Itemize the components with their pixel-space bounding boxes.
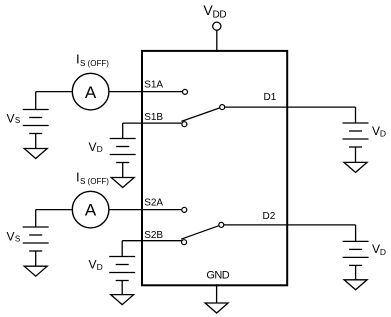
wire VD1 top lead <box>122 123 124 138</box>
svg-text:S1A: S1A <box>144 80 163 91</box>
battery VD (D1) <box>343 123 369 147</box>
svg-text:S2A: S2A <box>144 198 163 209</box>
label Is(OFF) 2 <box>76 169 109 186</box>
svg-text:D: D <box>380 129 386 139</box>
svg-text:D1: D1 <box>264 92 277 103</box>
wire VD(D1) bottom lead <box>355 147 357 162</box>
svg-text:A: A <box>85 201 97 220</box>
wire GND stub <box>216 284 218 303</box>
label VD (D1) <box>372 124 386 139</box>
svg-text:GND: GND <box>206 270 229 282</box>
ground (VS1) <box>24 149 47 159</box>
ground (VS2) <box>24 266 47 276</box>
wire VS1 top lead <box>35 92 37 110</box>
label VS 1 <box>7 112 21 126</box>
svg-text:D: D <box>97 262 103 272</box>
VDD label <box>203 2 226 20</box>
wire VS2 bottom lead <box>35 251 37 266</box>
pole contact SW1 <box>220 105 225 110</box>
wire VD2 top lead <box>121 241 123 257</box>
contact S1B <box>182 122 187 127</box>
svg-text:A: A <box>85 83 97 102</box>
wire VD1 bottom lead <box>122 163 124 178</box>
svg-text:V: V <box>372 242 380 256</box>
svg-text:V: V <box>7 230 15 244</box>
wire D2 down lead <box>355 225 357 242</box>
wire D1 <box>225 106 356 108</box>
battery VS2 <box>23 227 49 251</box>
svg-text:V: V <box>7 112 15 126</box>
wire VD2 to pin S2B <box>122 240 182 242</box>
svg-text:D: D <box>97 144 103 154</box>
wire ammeter A2 to pin S2A <box>109 209 182 211</box>
label VS 2 <box>7 230 21 244</box>
wire VDD stub <box>216 30 218 52</box>
ground (VD D1) <box>344 162 367 172</box>
svg-text:S: S <box>15 116 20 125</box>
battery VD1 <box>110 139 136 163</box>
svg-text:DD: DD <box>213 9 227 20</box>
pole contact SW2 <box>219 222 224 227</box>
svg-text:D2: D2 <box>263 211 276 222</box>
wire D2 <box>224 224 356 226</box>
ammeter A2 <box>72 191 109 228</box>
wire ammeter A1 to pin S1A <box>109 91 182 93</box>
battery VD2 <box>109 257 135 281</box>
svg-text:S (OFF): S (OFF) <box>80 177 109 186</box>
wire VS1 bottom lead <box>35 134 37 149</box>
ammeter A1 <box>72 73 109 110</box>
switch arm SW1 <box>181 108 219 122</box>
label Is(OFF) 1 <box>76 51 109 68</box>
wire VS1 to ammeter A1 <box>36 91 73 93</box>
label VD (D2) <box>372 242 386 257</box>
wire VS2 top lead <box>35 210 37 227</box>
svg-text:V: V <box>89 257 97 271</box>
switch arm SW2 <box>181 226 219 240</box>
label VD 1 <box>89 140 103 154</box>
ground (GND pin) <box>205 303 228 313</box>
VDD terminal circle <box>213 22 221 30</box>
svg-text:D: D <box>380 247 386 257</box>
contact S2B <box>182 240 187 245</box>
IC body U1 <box>142 51 287 285</box>
svg-text:V: V <box>372 124 380 138</box>
ground (VD D2) <box>344 280 367 290</box>
contact S2A <box>182 207 187 212</box>
wire VS2 to ammeter A2 <box>36 209 73 211</box>
ground (VD1) <box>111 178 134 188</box>
battery VS1 <box>23 110 49 134</box>
svg-text:S2B: S2B <box>144 230 163 241</box>
wire VD1 to pin S1B <box>123 122 182 124</box>
svg-text:S (OFF): S (OFF) <box>80 59 109 68</box>
wire VD2 bottom lead <box>121 281 123 295</box>
svg-text:S1B: S1B <box>144 112 163 123</box>
battery VD (D2) <box>343 241 369 265</box>
svg-text:S: S <box>15 234 20 243</box>
ground (VD2) <box>111 295 134 305</box>
wire VD(D2) bottom lead <box>355 265 357 279</box>
contact S1A <box>183 89 188 94</box>
svg-text:V: V <box>89 140 97 154</box>
label VD 2 <box>89 257 103 272</box>
wire D1 down lead <box>355 107 357 123</box>
